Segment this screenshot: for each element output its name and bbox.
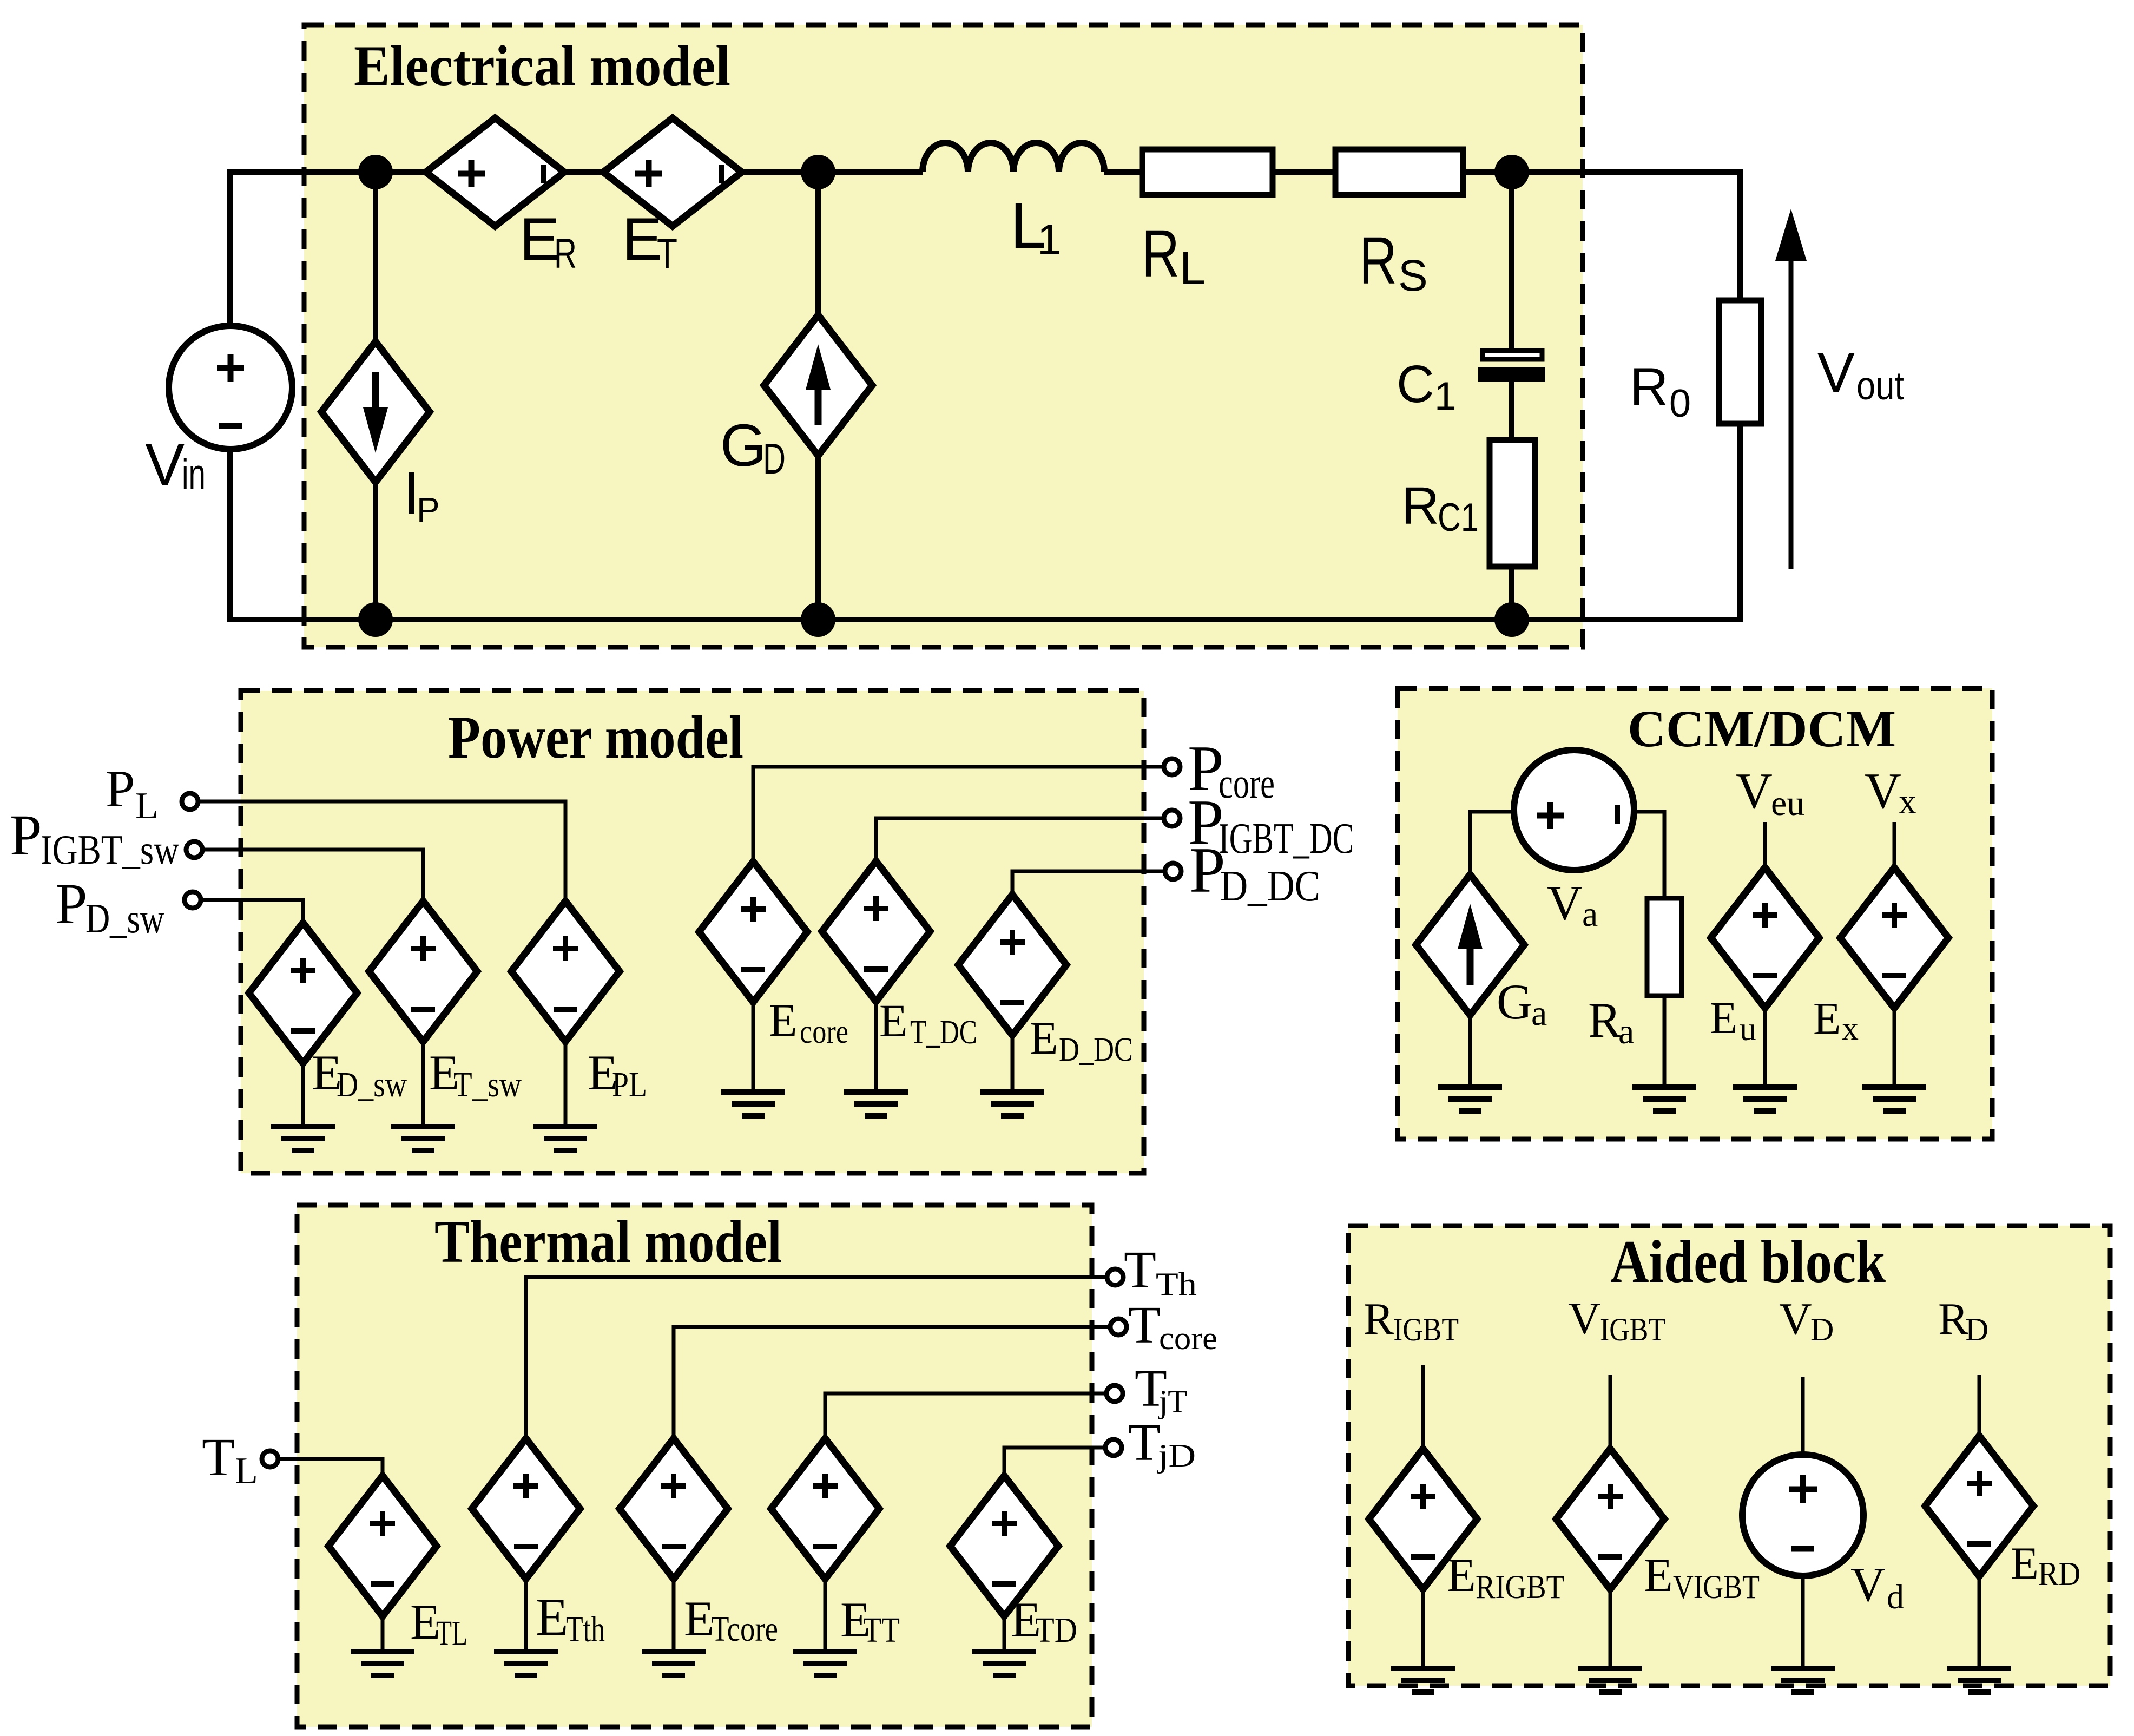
ground ET_DC (844, 1092, 908, 1116)
terminal Pcore (1164, 759, 1180, 775)
resistor RL (1142, 149, 1273, 195)
controlled source ERIGBT (1369, 1449, 1477, 1668)
svg-text:D: D (1810, 1312, 1834, 1347)
svg-text:R: R (554, 229, 577, 277)
wire PD_DC (1012, 871, 1165, 897)
ground ETth (494, 1652, 558, 1675)
svg-text:T: T (657, 230, 677, 278)
node C bottom junction dot (1494, 602, 1529, 637)
label ET (622, 206, 677, 278)
label PL (106, 760, 159, 827)
label PIGBT_DC (1188, 786, 1354, 863)
wire Tcore (674, 1327, 1110, 1439)
svg-text:TT: TT (863, 1610, 900, 1650)
wire VD stub (1801, 1377, 1805, 1457)
controlled source ETD (950, 1476, 1058, 1652)
label ERD (2011, 1538, 2080, 1593)
wire Pcore (753, 767, 1163, 864)
label C1 (1397, 354, 1457, 418)
wire PIGBT_DC (876, 818, 1163, 863)
wire node C to R0 (1512, 172, 1740, 302)
svg-text:P: P (106, 760, 135, 818)
svg-text:IGBT_sw: IGBT_sw (41, 826, 179, 873)
svg-text:x: x (1899, 782, 1916, 821)
title Power model (448, 704, 743, 771)
label IP (403, 460, 440, 529)
label PIGBT_sw (10, 804, 179, 873)
svg-text:V: V (1568, 1293, 1601, 1344)
controlled current source GD (764, 315, 872, 456)
svg-text:D: D (763, 435, 786, 483)
wire Veu stub (1763, 822, 1767, 869)
wire PL to EPL (199, 801, 565, 903)
wire TjD (1004, 1448, 1105, 1477)
ground Ecore (721, 1092, 785, 1116)
label Ga (1497, 974, 1547, 1033)
wire ER to ET (562, 169, 606, 175)
wire RC1 to bottom bus (1509, 561, 1514, 620)
svg-text:IGBT: IGBT (1600, 1312, 1665, 1347)
wire IP branch bottom (373, 478, 378, 620)
Vout arrow (1775, 209, 1807, 569)
wire C1 branch top (1509, 172, 1514, 352)
label Ecore (769, 994, 848, 1050)
terminal TTh (1107, 1269, 1123, 1285)
svg-text:Aided block: Aided block (1610, 1228, 1886, 1296)
svg-text:IGBT: IGBT (1393, 1312, 1459, 1347)
label Vd (1850, 1558, 1904, 1616)
svg-text:RIGBT: RIGBT (1476, 1569, 1564, 1606)
svg-text:E: E (2011, 1538, 2039, 1589)
svg-text:1: 1 (1434, 374, 1457, 418)
wire RS to node C (1460, 169, 1512, 175)
svg-text:0: 0 (1669, 382, 1691, 425)
label R0 (1630, 357, 1691, 425)
label RC1 (1401, 476, 1479, 540)
ground ERD (1947, 1668, 2011, 1692)
svg-text:R: R (1938, 1294, 1968, 1344)
ground ETT (793, 1652, 857, 1675)
svg-text:in: in (182, 450, 206, 498)
wire L1 to RL (1104, 169, 1145, 175)
controlled source ET_sw (369, 901, 477, 1127)
controlled source ED_DC (958, 895, 1066, 1092)
label PD_sw (55, 872, 164, 942)
svg-text:a: a (1531, 994, 1547, 1033)
controlled source ED_sw (249, 923, 357, 1127)
title CCM/DCM (1628, 700, 1896, 758)
svg-text:P: P (417, 490, 440, 529)
svg-text:VIGBT: VIGBT (1673, 1569, 1760, 1606)
svg-text:x: x (1842, 1010, 1859, 1047)
node A bottom junction dot (358, 602, 393, 637)
label TjT (1135, 1359, 1187, 1419)
wire PIGBT_sw to ET_sw (203, 850, 423, 903)
ground Ra (1632, 1087, 1696, 1111)
svg-text:IGBT_DC: IGBT_DC (1219, 815, 1354, 863)
svg-text:T_sw: T_sw (453, 1065, 522, 1104)
svg-text:out: out (1856, 364, 1904, 408)
svg-text:D_sw: D_sw (337, 1065, 407, 1104)
resistor Ra (1647, 898, 1682, 1087)
label ET_sw (429, 1045, 522, 1104)
svg-text:E: E (1030, 1012, 1058, 1064)
label RIGBT node (1364, 1294, 1459, 1347)
label ER (519, 206, 577, 277)
svg-text:L: L (1180, 242, 1206, 294)
terminal Tcore (1110, 1319, 1127, 1335)
node C junction dot (1494, 155, 1529, 189)
block: Power model dashed box (241, 691, 1144, 1173)
controlled source ET (603, 118, 742, 226)
wire R0 bottom (1737, 421, 1743, 622)
voltage source Va (1514, 750, 1634, 870)
ground EVIGBT (1578, 1668, 1642, 1692)
svg-text:core: core (1219, 760, 1275, 807)
svg-text:D_DC: D_DC (1059, 1031, 1133, 1068)
label Veu (1736, 763, 1804, 823)
title Electrical model (354, 34, 730, 97)
svg-text:E: E (879, 995, 908, 1047)
svg-text:R: R (1401, 476, 1439, 535)
controlled source ETcore (620, 1438, 728, 1652)
svg-text:R: R (1142, 217, 1180, 291)
inductor L1 (923, 143, 1104, 172)
ground ED_DC (980, 1092, 1044, 1116)
label TTh (1124, 1241, 1197, 1302)
label TL (202, 1427, 258, 1492)
resistor RC1 (1490, 440, 1535, 567)
block: CCM/DCM dashed box (1398, 688, 1992, 1139)
svg-text:TD: TD (1035, 1610, 1077, 1650)
wire RL to RS (1270, 169, 1338, 175)
voltage source Vin (169, 326, 292, 449)
label RL (1142, 217, 1206, 294)
svg-text:E: E (684, 1591, 714, 1646)
svg-text:E: E (1447, 1549, 1476, 1602)
wire Vx stub (1893, 822, 1896, 869)
ground ERIGBT (1391, 1668, 1455, 1692)
svg-text:V: V (1547, 876, 1583, 930)
svg-text:Power model: Power model (448, 704, 743, 771)
controlled source Ecore (699, 862, 807, 1092)
svg-text:V: V (1865, 763, 1901, 819)
controlled source ETth (472, 1438, 580, 1652)
label Vx (1865, 763, 1916, 821)
svg-text:TL: TL (436, 1614, 467, 1653)
wire IP branch top (373, 172, 378, 346)
svg-text:V: V (1779, 1294, 1812, 1344)
terminal TjD (1105, 1439, 1122, 1456)
svg-text:jT: jT (1158, 1384, 1187, 1419)
voltage source Vd (1742, 1455, 1863, 1668)
svg-text:Thermal model: Thermal model (434, 1208, 782, 1275)
wire Vin bottom loop (230, 444, 1740, 620)
resistor RS (1335, 149, 1463, 195)
svg-text:C: C (1397, 354, 1434, 413)
svg-text:R: R (1364, 1294, 1394, 1344)
label EPL (588, 1045, 647, 1104)
label Eu (1710, 993, 1756, 1048)
terminal PD_DC (1165, 863, 1181, 879)
svg-text:E: E (1813, 994, 1841, 1044)
svg-text:E: E (622, 206, 662, 273)
label ED_DC (1030, 1012, 1133, 1068)
wire Va to Ra (1633, 812, 1664, 899)
svg-text:PL: PL (612, 1065, 647, 1104)
svg-text:Tcore: Tcore (711, 1609, 778, 1649)
terminal PIGBT_sw (186, 841, 202, 858)
wire TL to ETL (278, 1459, 383, 1477)
svg-text:Th: Th (1156, 1266, 1197, 1302)
label ETD (1011, 1592, 1077, 1650)
controlled source ETL (328, 1476, 437, 1652)
label RS (1359, 224, 1428, 300)
svg-text:D_sw: D_sw (85, 895, 164, 942)
svg-text:T: T (202, 1427, 235, 1487)
label ETcore (684, 1591, 778, 1649)
terminal PL (182, 793, 198, 810)
node B junction dot (801, 155, 835, 189)
label TjD (1128, 1413, 1196, 1474)
wire RD stub (1978, 1375, 1981, 1437)
svg-text:u: u (1740, 1011, 1756, 1048)
ground ET_sw (391, 1127, 455, 1150)
svg-text:D: D (1965, 1312, 1988, 1347)
block: Thermal model dashed box (297, 1205, 1092, 1727)
label ERIGBT (1447, 1549, 1564, 1606)
svg-text:CCM/DCM: CCM/DCM (1628, 700, 1896, 758)
block: Aided block dashed box (1348, 1226, 2110, 1686)
wire GD branch bottom (815, 452, 821, 620)
svg-text:R: R (1359, 224, 1397, 298)
ground Vd (1771, 1668, 1835, 1692)
label Va (1547, 876, 1598, 934)
wire TTh (526, 1277, 1107, 1439)
label ETL (410, 1594, 467, 1653)
node A junction dot (358, 155, 393, 189)
svg-text:E: E (1644, 1549, 1673, 1602)
terminal PIGBT_DC (1164, 810, 1180, 826)
svg-text:core: core (1159, 1320, 1217, 1356)
wire node A to ER (376, 169, 429, 175)
ground ETL (351, 1652, 414, 1675)
controlled source ER (426, 118, 564, 226)
title Thermal model (434, 1208, 782, 1275)
svg-text:core: core (800, 1014, 848, 1050)
svg-text:V: V (145, 431, 185, 498)
label VIGBT node (1568, 1293, 1665, 1347)
controlled source Ex (1840, 867, 1948, 1087)
controlled current source Ga (1416, 874, 1524, 1087)
svg-text:a: a (1618, 1012, 1634, 1051)
wire Ga to Va (1470, 812, 1515, 877)
svg-text:P: P (55, 872, 88, 936)
wire Vin top loop (230, 172, 379, 331)
label Tcore (1128, 1296, 1217, 1356)
svg-text:P: P (10, 804, 42, 867)
svg-text:E: E (1710, 993, 1737, 1043)
ground ED_sw (271, 1127, 335, 1150)
label ET_DC (879, 995, 977, 1051)
label PD_DC (1189, 834, 1320, 910)
terminal TL (262, 1451, 278, 1467)
svg-text:C1: C1 (1438, 496, 1479, 540)
label L1 (1010, 189, 1062, 264)
svg-text:V: V (1736, 763, 1773, 819)
controlled source ERD (1925, 1436, 2033, 1668)
label Ex (1813, 994, 1859, 1047)
label VD node (1779, 1294, 1834, 1347)
controlled current source IP (321, 341, 430, 482)
label GD (720, 412, 786, 483)
label Vout (1817, 341, 1904, 408)
ground Ex (1862, 1087, 1926, 1111)
terminal TjT (1106, 1385, 1123, 1402)
controlled source Eu (1711, 867, 1819, 1087)
svg-text:1: 1 (1037, 215, 1062, 264)
label ETth (536, 1588, 605, 1649)
ground Ga (1438, 1087, 1502, 1111)
svg-text:T_DC: T_DC (910, 1014, 977, 1051)
label EVIGBT (1644, 1549, 1760, 1606)
svg-text:Tth: Tth (566, 1608, 605, 1649)
node B bottom junction dot (801, 602, 835, 637)
svg-text:Electrical model: Electrical model (354, 34, 730, 97)
label ED_sw (312, 1045, 407, 1104)
ground ETcore (642, 1652, 706, 1675)
svg-text:a: a (1582, 895, 1598, 934)
wire VIGBT stub (1609, 1375, 1612, 1450)
resistor R0 (1719, 300, 1761, 424)
label RD node (1938, 1294, 1988, 1347)
svg-text:E: E (536, 1588, 568, 1647)
controlled source EVIGBT (1556, 1449, 1664, 1668)
svg-text:R: R (1630, 357, 1669, 417)
title Aided block (1610, 1228, 1886, 1296)
wire GD branch top (815, 172, 821, 319)
wire RIGBT stub (1421, 1365, 1425, 1450)
wire C1 to RC1 (1509, 378, 1514, 443)
wire PD_sw to ED_sw (202, 900, 303, 924)
ground EPL (533, 1127, 597, 1150)
svg-text:D_DC: D_DC (1220, 863, 1320, 910)
svg-text:jD: jD (1157, 1438, 1196, 1474)
ground Eu (1733, 1087, 1797, 1111)
label Pcore (1188, 732, 1275, 807)
svg-text:E: E (519, 206, 559, 273)
svg-text:L: L (235, 1450, 258, 1492)
svg-text:eu: eu (1771, 784, 1804, 823)
controlled source EPL (511, 901, 620, 1127)
controlled source ETT (771, 1438, 879, 1652)
wire TjT (825, 1393, 1106, 1439)
svg-text:R: R (1588, 992, 1622, 1048)
ground ETD (972, 1652, 1036, 1675)
svg-text:T: T (1124, 1241, 1156, 1299)
wire ET to node B to L1 (739, 169, 923, 175)
svg-text:G: G (1497, 974, 1532, 1029)
svg-text:RD: RD (2038, 1556, 2080, 1593)
label ETT (840, 1592, 900, 1650)
label Ra (1588, 992, 1634, 1051)
svg-text:L: L (135, 785, 159, 827)
svg-text:T: T (1128, 1296, 1161, 1354)
svg-text:G: G (720, 412, 767, 479)
terminal PD_sw (185, 892, 201, 908)
svg-text:S: S (1398, 251, 1428, 300)
label Vin (145, 431, 206, 498)
svg-text:V: V (1850, 1558, 1886, 1612)
svg-text:V: V (1817, 341, 1855, 404)
svg-text:T: T (1128, 1413, 1161, 1472)
svg-text:E: E (769, 994, 798, 1046)
block: Electrical model dashed box (304, 25, 1583, 647)
controlled source ET_DC (822, 861, 930, 1092)
svg-text:d: d (1887, 1577, 1904, 1616)
capacitor C1 (1478, 351, 1545, 382)
